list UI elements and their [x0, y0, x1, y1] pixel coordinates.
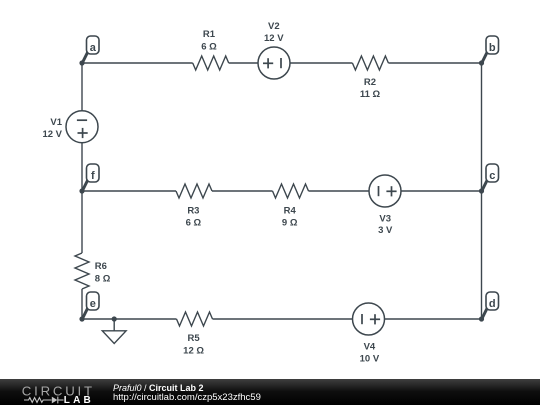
- circuitlab logo: [0, 379, 110, 405]
- wire R5 to V4: [213, 318, 353, 320]
- svg-text:V2: V2: [268, 21, 280, 32]
- node b: [479, 36, 499, 66]
- resistor R4: [273, 184, 309, 228]
- ground: [102, 316, 126, 343]
- wire top row a to R1: [82, 62, 193, 64]
- svg-text:V3: V3: [379, 213, 391, 224]
- wire R1 to V2: [229, 62, 258, 64]
- svg-text:8 Ω: 8 Ω: [95, 273, 111, 284]
- svg-text:a: a: [90, 42, 97, 54]
- wire V1 to f: [81, 143, 83, 191]
- svg-text:c: c: [489, 170, 495, 182]
- svg-text:12 V: 12 V: [42, 129, 62, 140]
- resistor R2: [352, 56, 388, 100]
- svg-text:11 Ω: 11 Ω: [360, 89, 381, 100]
- svg-text:R3: R3: [187, 205, 199, 216]
- svg-text:R1: R1: [203, 29, 216, 40]
- wire right rail b to d: [481, 63, 483, 319]
- svg-text:R5: R5: [188, 333, 201, 344]
- resistor R6: [75, 253, 111, 289]
- wire a to V1: [81, 63, 83, 111]
- svg-text:LAB: LAB: [64, 395, 94, 405]
- node c: [479, 164, 499, 194]
- attribution text: [113, 384, 261, 403]
- node f: [79, 164, 99, 194]
- wire V4 to d: [385, 318, 482, 320]
- wire R2 to b: [388, 62, 481, 64]
- voltage source V2: [258, 21, 290, 79]
- voltage source V1: [42, 111, 98, 143]
- svg-text:9 Ω: 9 Ω: [282, 217, 298, 228]
- svg-text:b: b: [489, 42, 496, 54]
- svg-text:10 V: 10 V: [360, 353, 380, 364]
- voltage source V3: [369, 175, 401, 236]
- svg-text:e: e: [90, 298, 96, 310]
- svg-text:R2: R2: [364, 77, 376, 88]
- footer bar: [0, 379, 540, 405]
- wire R4 to V3: [309, 190, 370, 192]
- wire f to R3: [82, 190, 176, 192]
- wire R6 to e: [81, 289, 83, 319]
- resistor R3: [176, 184, 212, 228]
- svg-text:d: d: [489, 298, 496, 310]
- wire f to R6: [81, 191, 83, 253]
- svg-text:R6: R6: [95, 261, 107, 272]
- svg-text:R4: R4: [284, 205, 297, 216]
- voltage source V4: [353, 303, 385, 364]
- resistor R1: [193, 29, 229, 70]
- node d: [479, 292, 499, 322]
- wire R3 to R4: [212, 190, 273, 192]
- wire V3 to c: [401, 190, 482, 192]
- svg-text:6 Ω: 6 Ω: [186, 217, 202, 228]
- node e: [79, 292, 99, 322]
- node a: [79, 36, 99, 66]
- wire V2 to R2: [290, 62, 352, 64]
- svg-text:12 Ω: 12 Ω: [183, 346, 204, 357]
- svg-text:3 V: 3 V: [378, 225, 393, 236]
- svg-text:V1: V1: [50, 117, 62, 128]
- svg-text:f: f: [91, 170, 95, 182]
- svg-text:V4: V4: [364, 341, 376, 352]
- svg-text:12 V: 12 V: [264, 33, 284, 44]
- svg-text:6 Ω: 6 Ω: [201, 41, 217, 52]
- resistor R5: [177, 312, 213, 357]
- wire e to R5: [82, 318, 177, 320]
